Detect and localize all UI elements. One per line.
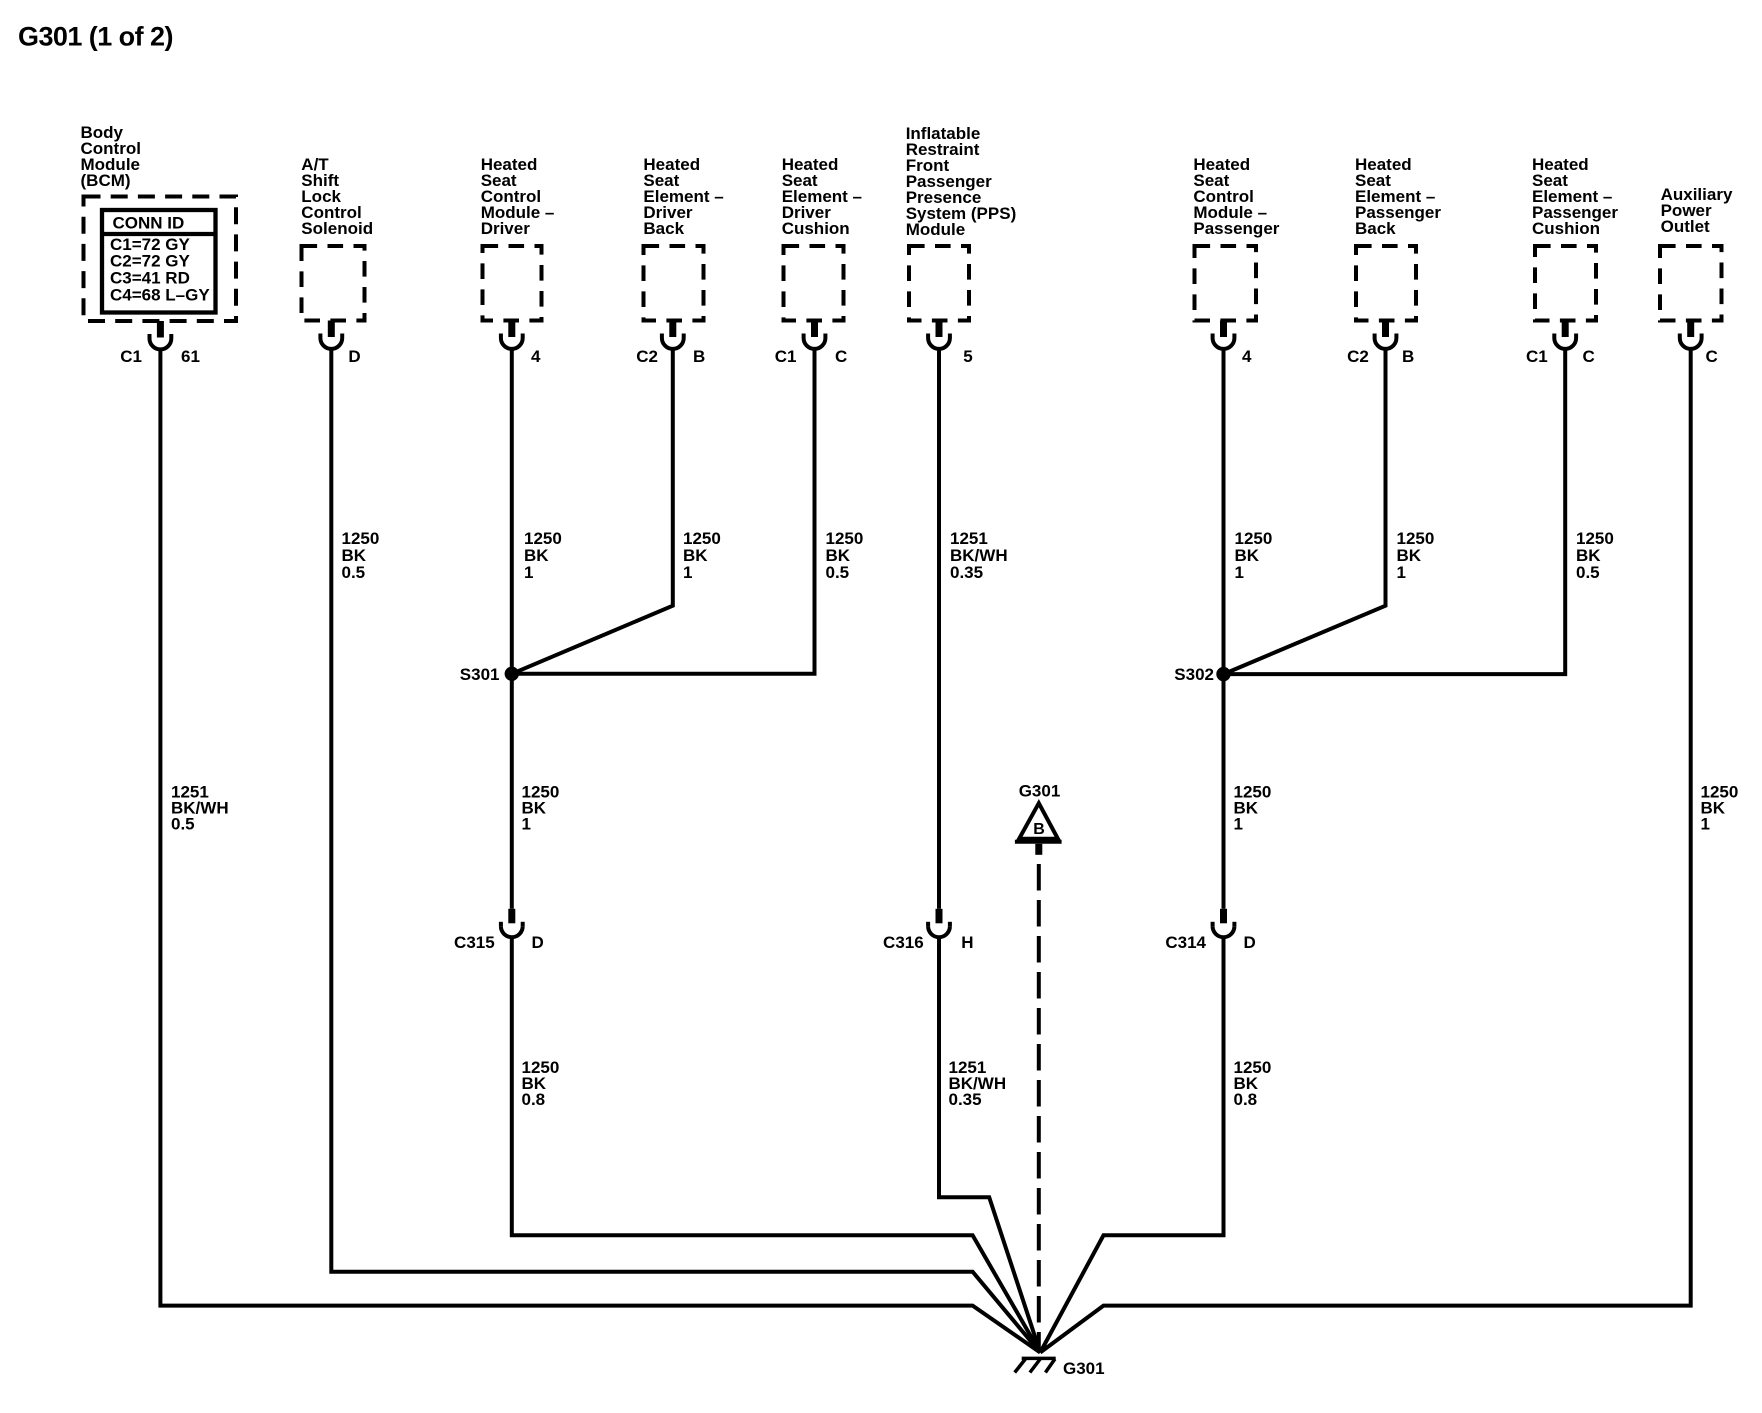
label wire 1250 BK 0.5: [1576, 529, 1614, 582]
svg-text:0.5: 0.5: [342, 563, 366, 582]
component: Heated Seat Element - Passenger Back: [1355, 155, 1441, 320]
svg-text:4: 4: [1242, 347, 1252, 366]
svg-text:1: 1: [1235, 563, 1244, 582]
svg-text:1: 1: [1397, 563, 1406, 582]
component: Heated Seat Element - Passenger Cushion: [1532, 155, 1618, 320]
label wire 1250 BK 1: [1397, 529, 1435, 582]
svg-text:B: B: [1033, 821, 1045, 838]
svg-text:G301: G301: [1063, 1359, 1105, 1378]
component: A/T Shift Lock Control Solenoid: [301, 155, 373, 320]
splice S302: [1174, 665, 1230, 684]
svg-text:0.5: 0.5: [1576, 563, 1600, 582]
wire 1250 BK 1 from HSE-Passenger-Back B to S302: [1224, 348, 1386, 674]
connector HSCM-Driver pin 4: [501, 321, 541, 366]
wire 1251 BK/WH 0.5 from BCM C1-61 to G301: [160, 348, 1040, 1352]
label wire 1250 BK 1: [683, 529, 721, 582]
svg-text:C314: C314: [1165, 933, 1206, 952]
svg-text:CONN ID: CONN ID: [113, 213, 185, 232]
connector HSCM-Passenger pin 4: [1213, 321, 1252, 366]
svg-text:C1: C1: [775, 347, 797, 366]
svg-text:C4=68 L–GY: C4=68 L–GY: [110, 286, 210, 305]
svg-text:G301: G301: [1019, 782, 1061, 801]
wire 1250 BK 0.5 from HSE-Driver-Cushion C to S301: [512, 348, 815, 674]
svg-text:0.8: 0.8: [1234, 1090, 1258, 1109]
svg-text:D: D: [348, 347, 360, 366]
connector Aux Power Outlet pin C: [1680, 321, 1718, 366]
svg-text:Cushion: Cushion: [1532, 219, 1600, 238]
in-line connector C315 pin D: [454, 909, 544, 952]
label wire 1251 BK/WH 0.35 (upper): [950, 529, 1008, 582]
wire 1251 BK/WH 0.35 from C316 to G301: [939, 936, 1040, 1353]
svg-text:C: C: [1706, 347, 1718, 366]
svg-text:4: 4: [531, 347, 541, 366]
in-line connector C316 pin H: [883, 909, 973, 952]
connector PPS module pin 5: [928, 321, 973, 366]
label wire 1250 BK 1 (below S301): [522, 783, 560, 834]
component: Inflatable Restraint Front Passenger Presence System (PPS) Module: [906, 124, 1017, 320]
connector HSE-Passenger-Back C2 pin B: [1347, 321, 1414, 366]
wire 1250 BK 1 from Aux Power Outlet C to G301: [1040, 348, 1691, 1352]
svg-text:Passenger: Passenger: [1193, 219, 1279, 238]
svg-text:0.5: 0.5: [826, 563, 850, 582]
label wire 1251 BK/WH 0.5: [171, 783, 229, 834]
svg-text:0.35: 0.35: [949, 1090, 982, 1109]
svg-text:0.35: 0.35: [950, 563, 983, 582]
label wire 1250 BK 1 (upper): [1235, 529, 1273, 582]
svg-text:C2: C2: [1347, 347, 1369, 366]
svg-text:C1: C1: [120, 347, 142, 366]
label wire 1250 BK 0.8: [522, 1058, 560, 1109]
wire 1250 BK 0.8 from C315 to G301: [512, 936, 1040, 1353]
label wire 1250 BK 1 (upper): [524, 529, 562, 582]
svg-text:(BCM): (BCM): [81, 171, 131, 190]
svg-text:C316: C316: [883, 933, 924, 952]
svg-text:B: B: [693, 347, 705, 366]
wire 1250 BK 0.5 from A/T solenoid D to G301: [331, 348, 1040, 1352]
svg-text:Outlet: Outlet: [1661, 217, 1710, 236]
wire 1250 BK 0.8 from C314 to G301: [1040, 936, 1223, 1353]
svg-text:61: 61: [181, 347, 200, 366]
component: Body Control Module (BCM): [81, 123, 237, 321]
wire 1250 BK 1 from HSCM-Passenger 4 to S302: [1222, 348, 1226, 674]
connector BCM C1 pin 61: [120, 321, 200, 366]
svg-text:C: C: [835, 347, 847, 366]
svg-text:B: B: [1402, 347, 1414, 366]
wire 1250 BK 1 from S301 to C315: [510, 674, 514, 909]
label wire 1250 BK 0.5: [826, 529, 864, 582]
connector HSE-Passenger-Cushion C1 pin C: [1526, 321, 1595, 366]
svg-text:Back: Back: [643, 219, 684, 238]
label wire 1251 BK/WH 0.35 (lower): [949, 1058, 1007, 1109]
svg-text:1: 1: [1234, 815, 1243, 834]
svg-text:1: 1: [1701, 815, 1710, 834]
label wire 1250 BK 1 (below S302): [1234, 783, 1272, 834]
wire 1250 BK 1 from HSE-Driver-Back B to S301: [512, 348, 673, 674]
svg-text:C2: C2: [636, 347, 658, 366]
svg-text:S301: S301: [460, 665, 500, 684]
dashed wire from triangle B to ground G301: [1037, 864, 1041, 1350]
svg-text:Driver: Driver: [481, 219, 531, 238]
label wire 1250 BK 1: [1701, 783, 1739, 834]
svg-text:D: D: [532, 933, 544, 952]
svg-text:S302: S302: [1174, 665, 1214, 684]
svg-text:D: D: [1244, 933, 1256, 952]
svg-text:5: 5: [963, 347, 972, 366]
component: Heated Seat Element - Driver Cushion: [782, 155, 862, 320]
connector A/T solenoid pin D: [320, 321, 360, 366]
connector HSE-Driver-Cushion C1 pin C: [775, 321, 848, 366]
svg-text:Solenoid: Solenoid: [301, 219, 373, 238]
in-line connector C314 pin D: [1165, 909, 1255, 952]
wire 1250 BK 0.5 from HSE-Passenger-Cushion C to S302: [1224, 348, 1566, 674]
connector HSE-Driver-Back C2 pin B: [636, 321, 705, 366]
svg-text:0.5: 0.5: [171, 815, 195, 834]
component: Heated Seat Control Module - Driver: [481, 155, 555, 320]
wire 1251 BK/WH 0.35 from PPS 5 to C316: [937, 348, 941, 909]
svg-text:Module: Module: [906, 220, 966, 239]
svg-text:1: 1: [522, 815, 531, 834]
component: Auxiliary Power Outlet: [1660, 185, 1733, 320]
component: Heated Seat Element - Driver Back: [643, 155, 723, 320]
svg-text:C315: C315: [454, 933, 495, 952]
component: Heated Seat Control Module - Passenger: [1193, 155, 1279, 320]
svg-text:1: 1: [524, 563, 533, 582]
label wire 1250 BK 0.5: [342, 529, 380, 582]
svg-text:Back: Back: [1355, 219, 1396, 238]
ground G301 (chassis ground symbol): [1015, 1358, 1105, 1378]
svg-text:1: 1: [683, 563, 692, 582]
svg-text:0.8: 0.8: [522, 1090, 546, 1109]
svg-text:H: H: [961, 933, 973, 952]
title G301 (1 of 2): [18, 22, 173, 52]
svg-text:C1: C1: [1526, 347, 1548, 366]
ground reference symbol G301 (triangle B): [1015, 782, 1062, 855]
splice S301: [460, 665, 519, 684]
svg-text:C: C: [1583, 347, 1595, 366]
label wire 1250 BK 0.8: [1234, 1058, 1272, 1109]
wire 1250 BK 1 from S302 to C314: [1222, 674, 1226, 909]
wire 1250 BK 1 from HSCM-Driver 4 to S301: [510, 348, 514, 674]
svg-text:G301 (1 of 2): G301 (1 of 2): [18, 22, 173, 52]
svg-text:Cushion: Cushion: [782, 219, 850, 238]
